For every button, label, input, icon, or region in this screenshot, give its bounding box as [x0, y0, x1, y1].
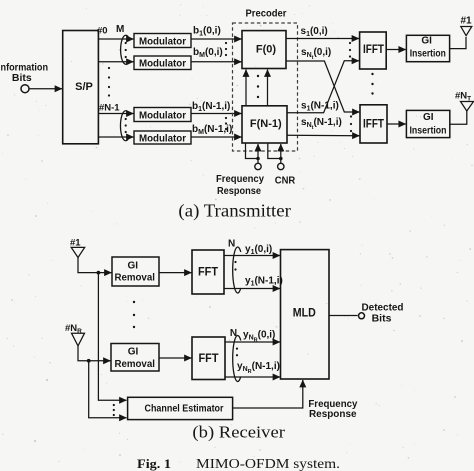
svg-text:Response: Response — [217, 185, 261, 197]
wire sNt(N-1,i) F(N-1) to IFFT2 — [287, 134, 360, 136]
wire antennaNR to GI Removal 2 — [78, 346, 111, 361]
wire Modulator1 to F(0) — [191, 38, 242, 40]
svg-text:GI: GI — [128, 347, 139, 358]
svg-text:GI: GI — [421, 36, 432, 47]
dots S/P fanout — [108, 67, 110, 69]
svg-text:y1(N-1,i): y1(N-1,i) — [245, 276, 283, 288]
svg-text:#N-1: #N-1 — [99, 103, 120, 114]
block IFFT1 — [360, 32, 387, 69]
block Modulator2 — [134, 56, 191, 70]
wire GI1 to antenna1 — [450, 37, 466, 49]
bus arc M groupN-1 — [120, 111, 129, 141]
block FFT1 — [192, 250, 224, 294]
wire s1(0,i) F(0) to IFFT1 — [286, 38, 359, 40]
svg-text:N: N — [230, 328, 237, 339]
svg-text:Bits: Bits — [372, 313, 392, 325]
svg-text:Insertion: Insertion — [410, 125, 447, 136]
wire GIR1 to FFT1 — [159, 272, 192, 274]
block GI Removal 2 — [111, 344, 159, 372]
bus arc Nc row1 — [233, 247, 241, 293]
svg-text:y1(0,i): y1(0,i) — [245, 244, 272, 256]
svg-text:CNR: CNR — [275, 175, 296, 187]
svg-text:sNt(N-1,i): sNt(N-1,i) — [301, 117, 342, 131]
svg-text:s1(0,i): s1(0,i) — [301, 26, 328, 38]
block FFT2 — [192, 337, 225, 380]
svg-text:#1: #1 — [70, 238, 81, 249]
wire S/P to Modulator3 — [98, 113, 133, 115]
block Modulator4 — [134, 131, 191, 144]
svg-text:F(N-1): F(N-1) — [250, 118, 282, 130]
svg-text:Modulator: Modulator — [139, 111, 186, 122]
dots before IFFT1 — [349, 42, 351, 44]
junction antenna1 — [97, 271, 101, 275]
wire frequency response into F(N-1) — [246, 143, 259, 159]
node CNR — [278, 163, 284, 169]
junction CNR — [279, 157, 283, 161]
svg-text:(b) Receiver: (b) Receiver — [192, 423, 285, 442]
wire S/P to Modulator1 — [98, 38, 133, 40]
block Modulator3 — [134, 108, 191, 122]
dots before IFFT2 — [350, 115, 352, 117]
wire yNR(0,i) FFT2 to MLD — [225, 341, 280, 343]
wire channel estimator to MLD frequency response — [233, 380, 303, 408]
block MLD — [281, 250, 330, 379]
svg-text:MLD: MLD — [293, 308, 316, 320]
wire GIR2 to FFT2 — [159, 357, 192, 359]
wire junctionNR to channel estimator — [89, 361, 127, 418]
wire IFFT1 to GI1 — [386, 49, 406, 51]
svg-text:Frequency: Frequency — [216, 173, 264, 185]
wire CNR into F(N-1) — [268, 143, 281, 159]
svg-text:bM(0,i): bM(0,i) — [193, 47, 223, 59]
block IFFT2 — [360, 105, 387, 143]
wire S/P to Modulator2 — [98, 61, 133, 63]
wire CNR/FR riser to F(0) right — [267, 70, 269, 106]
svg-text:sNt(0,i): sNt(0,i) — [301, 47, 331, 61]
wire GI2 to antenna2 — [450, 111, 467, 124]
svg-text:Insertion: Insertion — [410, 49, 446, 60]
dots bus arc row2 RX — [236, 348, 238, 350]
svg-text:GI: GI — [128, 260, 139, 271]
svg-text:Bits: Bits — [12, 72, 32, 84]
wire Modulator3 to F(N-1) — [191, 113, 242, 115]
dots bus arc group0 — [125, 42, 127, 44]
svg-text:Modulator: Modulator — [139, 59, 186, 70]
svg-text:GI: GI — [423, 112, 434, 123]
wire s1(N-1,i) F(N-1) to IFFT1 crossing — [287, 61, 359, 113]
svg-text:MIMO-OFDM system.: MIMO-OFDM system. — [196, 457, 340, 471]
dots between F blocks — [257, 75, 259, 77]
antenna #NR RX — [72, 333, 85, 346]
block Channel Estimator — [128, 397, 233, 419]
svg-text:F(0): F(0) — [256, 44, 277, 56]
bus arc Nc row2 — [233, 336, 241, 382]
block S/P — [63, 31, 99, 144]
wire junction1 to channel estimator — [98, 273, 126, 401]
wire antenna1 to GI Removal 1 — [78, 258, 112, 273]
wire y1(N-1,i) FFT1 to MLD — [224, 288, 280, 290]
svg-text:Response: Response — [309, 408, 357, 420]
svg-text:FFT: FFT — [198, 267, 218, 279]
svg-text:bM(N-1,i): bM(N-1,i) — [192, 124, 232, 136]
antenna #1 TX — [461, 27, 472, 36]
wire S/P to Modulator4 — [98, 136, 133, 138]
dots between IFFTs — [371, 73, 373, 75]
block Modulator1 — [134, 34, 191, 48]
bus arc M group0 — [121, 35, 130, 64]
wire IFFT2 to GI2 — [387, 123, 406, 125]
block F(N-1) — [242, 106, 287, 143]
junction frequency response — [256, 157, 260, 161]
svg-text:S/P: S/P — [75, 81, 93, 93]
junction antennaNR — [87, 359, 91, 363]
wire information bits to S/P — [30, 88, 63, 90]
antenna #1 RX — [71, 247, 85, 257]
dots b labels column top — [225, 42, 227, 44]
svg-text:(a) Transmitter: (a) Transmitter — [178, 200, 291, 220]
block F(0) — [242, 31, 286, 69]
svg-text:N: N — [228, 239, 235, 250]
node detected bits — [359, 313, 365, 319]
dots bus arc row1 RX — [234, 261, 236, 263]
svg-text:yNR(N-1,i): yNR(N-1,i) — [237, 361, 280, 375]
svg-text:#NR: #NR — [65, 323, 82, 335]
wire Modulator2 to F(0) — [191, 61, 242, 63]
svg-text:b1(0,i): b1(0,i) — [193, 26, 221, 38]
wire yNR(N-1,i) FFT2 to MLD — [225, 376, 280, 378]
svg-text:Modulator: Modulator — [139, 134, 186, 145]
block GI Insertion 2 — [406, 110, 449, 137]
block GI Insertion 1 — [406, 35, 449, 61]
node information-bits input — [21, 85, 29, 93]
wire CNR/FR riser to F(0) left — [245, 70, 247, 106]
dots between RX rows — [133, 301, 135, 303]
svg-text:M: M — [116, 24, 124, 35]
svg-text:#NT: #NT — [455, 91, 471, 103]
wire y1(0,i) FFT1 to MLD — [224, 255, 280, 257]
node frequency response — [255, 163, 261, 169]
dots bus arc groupN-1 — [125, 118, 127, 120]
svg-text:Removal: Removal — [114, 272, 155, 283]
svg-text:#1: #1 — [461, 16, 473, 27]
dots b labels column bottom — [225, 117, 227, 119]
wire MLD to detected bits — [329, 315, 358, 317]
svg-text:IFFT: IFFT — [363, 119, 384, 131]
svg-text:Precoder: Precoder — [246, 8, 287, 20]
precoder dashed box — [233, 23, 298, 151]
block GI Removal 1 — [112, 257, 159, 286]
wire Modulator4 to F(N-1) — [191, 136, 242, 138]
svg-text:FFT: FFT — [199, 353, 219, 365]
wire sNt(0,i) F(0) to IFFT2 crossing — [286, 61, 360, 112]
svg-text:Fig. 1: Fig. 1 — [137, 456, 171, 471]
svg-text:Removal: Removal — [114, 359, 155, 370]
svg-text:Modulator: Modulator — [139, 37, 186, 48]
svg-text:#0: #0 — [97, 26, 108, 37]
svg-text:IFFT: IFFT — [363, 44, 384, 56]
svg-text:b1(N-1,i): b1(N-1,i) — [192, 101, 230, 113]
antenna #NT TX — [461, 102, 474, 112]
dots channel estimator inputs — [113, 404, 115, 406]
svg-text:s1(N-1,i): s1(N-1,i) — [301, 101, 339, 113]
